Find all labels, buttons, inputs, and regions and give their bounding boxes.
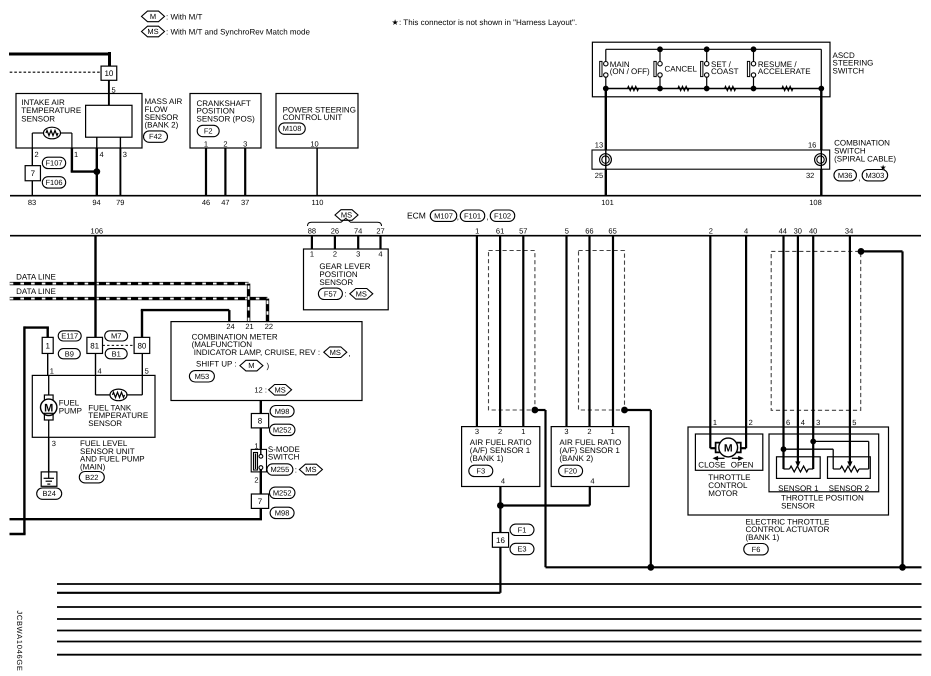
svg-text:110: 110	[312, 198, 324, 207]
svg-text:24: 24	[226, 322, 234, 331]
svg-text:B9: B9	[65, 349, 74, 358]
svg-text:4: 4	[501, 477, 505, 486]
svg-text:8: 8	[258, 417, 263, 426]
svg-text:: This connector is not shown: : This connector is not shown in "Harnes…	[399, 18, 577, 27]
svg-text:2: 2	[749, 418, 753, 427]
svg-text:57: 57	[519, 226, 527, 235]
svg-text:MS: MS	[341, 211, 352, 220]
svg-text:94: 94	[92, 198, 100, 207]
svg-text:1: 1	[310, 250, 314, 259]
svg-text:COAST: COAST	[711, 67, 739, 76]
svg-text:34: 34	[845, 226, 853, 235]
svg-text:65: 65	[608, 226, 616, 235]
svg-text:M7: M7	[111, 332, 121, 341]
svg-text:SENSOR: SENSOR	[21, 114, 55, 123]
svg-text:F107: F107	[45, 159, 62, 168]
svg-text:M36: M36	[838, 171, 853, 180]
svg-text:,: ,	[486, 213, 488, 222]
svg-text:101: 101	[601, 198, 614, 207]
svg-text:F1: F1	[518, 525, 527, 534]
svg-text:13: 13	[595, 141, 603, 150]
svg-text:SWITCH: SWITCH	[833, 66, 865, 75]
svg-text:4: 4	[100, 150, 104, 159]
svg-text:B1: B1	[112, 349, 121, 358]
svg-text:2: 2	[709, 226, 713, 235]
svg-text:1: 1	[45, 341, 50, 350]
svg-text:2: 2	[35, 150, 39, 159]
svg-text:(BANK 1): (BANK 1)	[470, 454, 504, 463]
svg-text:5: 5	[145, 367, 149, 376]
svg-text:25: 25	[595, 171, 603, 180]
svg-text:M98: M98	[275, 509, 290, 518]
svg-text:4: 4	[744, 226, 748, 235]
svg-text:12 :: 12 :	[254, 386, 267, 395]
svg-text:CLOSE: CLOSE	[698, 460, 725, 469]
svg-text:(MAIN): (MAIN)	[80, 462, 106, 471]
svg-text:M: M	[248, 361, 254, 370]
svg-text:(BANK 2): (BANK 2)	[145, 121, 179, 130]
svg-text:M108: M108	[283, 124, 302, 133]
svg-text:M107: M107	[434, 211, 453, 220]
svg-text:SENSOR: SENSOR	[781, 501, 815, 510]
svg-text:SENSOR: SENSOR	[319, 278, 353, 287]
svg-text:81: 81	[90, 341, 99, 350]
svg-text:F101: F101	[464, 211, 481, 220]
svg-text:108: 108	[809, 198, 822, 207]
svg-text:MS: MS	[330, 348, 341, 357]
svg-text:61: 61	[496, 226, 504, 235]
svg-text:37: 37	[241, 198, 249, 207]
svg-text:CONTROL UNIT: CONTROL UNIT	[283, 113, 343, 122]
svg-text:ACCELERATE: ACCELERATE	[758, 67, 811, 76]
svg-text:CANCEL: CANCEL	[665, 64, 698, 73]
svg-text:1: 1	[611, 427, 615, 436]
svg-text:SENSOR: SENSOR	[88, 419, 122, 428]
svg-text:44: 44	[779, 226, 787, 235]
svg-text:3: 3	[123, 150, 127, 159]
svg-text:3: 3	[52, 439, 56, 448]
svg-text:2: 2	[587, 427, 591, 436]
svg-text:SHIFT UP :: SHIFT UP :	[196, 359, 237, 368]
svg-text:DATA LINE: DATA LINE	[16, 272, 56, 281]
svg-text:7: 7	[258, 497, 263, 506]
svg-text:M255: M255	[271, 465, 290, 474]
svg-text:10: 10	[310, 139, 318, 148]
svg-text:4: 4	[378, 250, 382, 259]
svg-text:4: 4	[590, 477, 594, 486]
svg-text:M98: M98	[275, 407, 290, 416]
svg-text:JCBWA1046GE: JCBWA1046GE	[15, 610, 24, 671]
svg-text:M: M	[44, 402, 53, 414]
svg-text:16: 16	[808, 141, 816, 150]
svg-text:6: 6	[786, 418, 790, 427]
svg-text:5: 5	[565, 226, 569, 235]
svg-text:32: 32	[806, 171, 814, 180]
svg-text:106: 106	[91, 226, 104, 235]
svg-text:F102: F102	[494, 211, 511, 220]
svg-text:DATA LINE: DATA LINE	[16, 287, 56, 296]
svg-text:1: 1	[713, 418, 717, 427]
svg-text:27: 27	[376, 226, 384, 235]
svg-text:PUMP: PUMP	[59, 406, 82, 415]
svg-text:M252: M252	[273, 426, 292, 435]
svg-text:22: 22	[265, 322, 273, 331]
svg-text:F3: F3	[476, 467, 485, 476]
svg-text:E3: E3	[517, 545, 526, 554]
svg-text:3: 3	[564, 427, 568, 436]
svg-text:1: 1	[521, 427, 525, 436]
svg-text:(ON / OFF): (ON / OFF)	[610, 67, 650, 76]
svg-text:7: 7	[31, 169, 36, 178]
svg-text:: With M/T: : With M/T	[166, 12, 203, 21]
svg-text:3: 3	[243, 139, 247, 148]
svg-text:1: 1	[50, 367, 54, 376]
svg-text:5: 5	[852, 418, 856, 427]
svg-text:F20: F20	[564, 467, 577, 476]
svg-text:30: 30	[794, 226, 802, 235]
svg-text:1: 1	[74, 150, 78, 159]
svg-text:4: 4	[98, 367, 102, 376]
svg-text:MOTOR: MOTOR	[708, 489, 738, 498]
svg-text:26: 26	[331, 226, 339, 235]
svg-text:M: M	[150, 12, 156, 21]
svg-text:4: 4	[801, 418, 805, 427]
svg-text:21: 21	[245, 322, 253, 331]
svg-text:2: 2	[333, 250, 337, 259]
svg-text:F42: F42	[149, 132, 162, 141]
svg-text:MS: MS	[356, 289, 367, 298]
svg-text:MS: MS	[305, 465, 316, 474]
svg-text:M252: M252	[273, 488, 292, 497]
svg-text:2: 2	[254, 475, 258, 484]
svg-text:66: 66	[585, 226, 593, 235]
svg-text:1: 1	[475, 226, 479, 235]
svg-text:,: ,	[348, 349, 350, 358]
svg-text::: :	[295, 465, 297, 474]
svg-text:INDICATOR LAMP, CRUISE, REV :: INDICATOR LAMP, CRUISE, REV :	[194, 348, 320, 357]
svg-text:SENSOR 2: SENSOR 2	[829, 484, 870, 493]
svg-text:F6: F6	[752, 545, 761, 554]
svg-text:,: ,	[858, 173, 860, 182]
svg-text:3: 3	[356, 250, 360, 259]
svg-text:M303: M303	[866, 171, 885, 180]
svg-text:E117: E117	[61, 332, 78, 341]
svg-text:★: ★	[392, 18, 399, 27]
svg-text::: :	[345, 290, 347, 299]
svg-text:M53: M53	[195, 372, 210, 381]
svg-text:40: 40	[809, 226, 817, 235]
svg-text:MS: MS	[147, 27, 158, 36]
svg-text:47: 47	[221, 198, 229, 207]
svg-text:74: 74	[354, 226, 362, 235]
svg-text:10: 10	[104, 69, 113, 78]
svg-text:,: ,	[457, 213, 459, 222]
svg-text:1: 1	[204, 139, 208, 148]
svg-text:16: 16	[496, 536, 505, 545]
svg-text:F106: F106	[45, 178, 62, 187]
svg-text:MS: MS	[274, 385, 285, 394]
svg-text:): )	[267, 361, 270, 370]
svg-text:B22: B22	[85, 473, 98, 482]
svg-text:SWITCH: SWITCH	[268, 453, 300, 462]
svg-text:46: 46	[202, 198, 210, 207]
svg-text:80: 80	[137, 341, 146, 350]
svg-text:SENSOR 1: SENSOR 1	[778, 484, 819, 493]
svg-text:F2: F2	[204, 127, 213, 136]
svg-text:88: 88	[308, 226, 316, 235]
svg-text:(BANK 2): (BANK 2)	[559, 454, 593, 463]
svg-text:79: 79	[116, 198, 124, 207]
svg-text:: With M/T and SynchroRev Matc: : With M/T and SynchroRev Match mode	[166, 27, 310, 36]
svg-text:F57: F57	[324, 289, 337, 298]
svg-text:(SPIRAL CABLE): (SPIRAL CABLE)	[834, 154, 896, 163]
svg-text:2: 2	[498, 427, 502, 436]
svg-text:(BANK 1): (BANK 1)	[746, 533, 780, 542]
svg-text:OPEN: OPEN	[731, 460, 754, 469]
svg-text:83: 83	[28, 198, 36, 207]
svg-text:M: M	[724, 442, 733, 454]
svg-text:B24: B24	[43, 489, 56, 498]
svg-text:2: 2	[223, 139, 227, 148]
svg-text:3: 3	[475, 427, 479, 436]
svg-text:SENSOR (POS): SENSOR (POS)	[197, 114, 256, 123]
svg-text:3: 3	[816, 418, 820, 427]
svg-text:ECM: ECM	[407, 211, 426, 221]
